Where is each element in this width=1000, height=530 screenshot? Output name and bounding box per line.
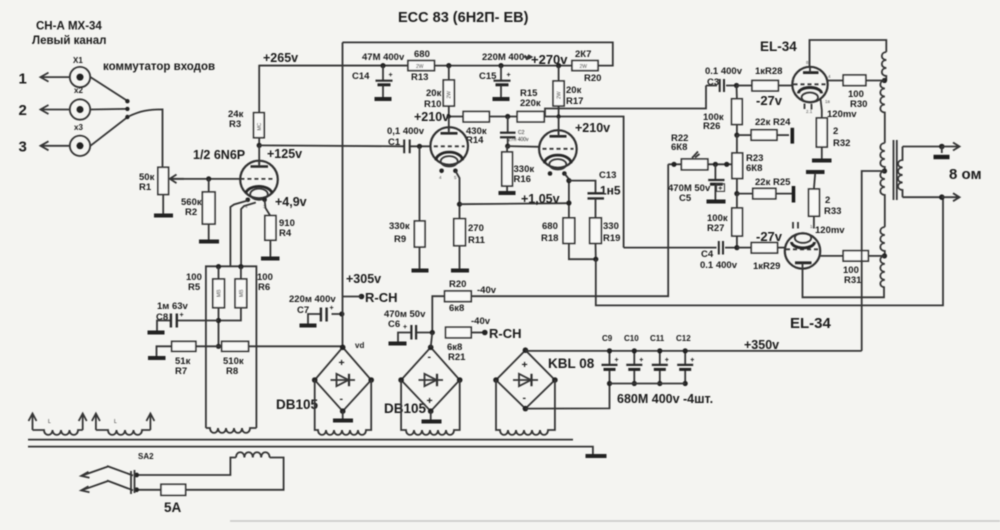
speaker output top [939,143,960,151]
capacitor C7 220м 400v [289,294,342,324]
resistor R15 220к [517,88,544,122]
ground R9 [412,269,429,273]
svg-text:2: 2 [19,102,27,119]
svg-text:МВ: МВ [239,289,245,297]
ground bridge VD [333,411,353,420]
wire grid to tube2 [508,145,540,148]
svg-text:R4: R4 [279,228,292,239]
bridge rectifier DB105 second [384,333,463,417]
wire tube1 cathode to node [455,171,459,219]
resistor R20b 6к8 [432,164,668,332]
svg-text:-: - [428,351,432,363]
resistor R20 2К7 2W [572,49,601,84]
node R11 top [457,202,462,207]
svg-text:C4: C4 [701,249,714,260]
resistor R7 51к [157,341,196,377]
svg-text:C6: C6 [388,319,400,330]
capacitor C3 0.1 400v [705,66,743,92]
ground C7 [300,324,317,328]
wire R17 node to C3 [545,86,706,117]
resistor R25 22к [737,177,794,203]
wire anode top to transformer [810,40,887,67]
resistor R18 680 [541,218,596,259]
node C2 top [505,114,510,119]
node R5 top [216,264,221,269]
svg-text:-: - [523,392,527,404]
svg-text:R13: R13 [411,72,428,83]
svg-text:-27v: -27v [756,93,783,108]
svg-text:0.1 400v: 0.1 400v [705,66,743,77]
svg-text:C12: C12 [676,334,691,343]
resistor R9 330к [389,146,425,268]
wire R5 R6 bottoms [219,308,241,347]
node bias divider lower [734,191,739,196]
resistor R10 20к [424,66,454,117]
svg-text:+: + [718,185,722,192]
svg-text:+: + [615,357,619,364]
capacitor C15 220М 400v [479,52,530,99]
svg-text:R19: R19 [603,233,620,244]
svg-text:220М 400v: 220М 400v [482,52,530,63]
heater supply box [206,266,257,428]
input terminal 1 [19,71,70,88]
svg-text:2: 2 [825,195,830,206]
svg-text:Левый канал: Левый канал [32,35,106,47]
svg-text:6К8: 6К8 [746,163,762,174]
svg-text:2W: 2W [556,91,562,99]
resistor R32 2 [816,99,850,159]
svg-text:120mv: 120mv [815,225,845,236]
svg-text:EL-34: EL-34 [760,39,797,54]
ground bias [806,170,825,174]
wire feedback to speaker [596,197,943,305]
svg-text:R33: R33 [824,206,841,217]
svg-text:+: + [389,72,393,79]
wire KBL 08 plus to +350v rail [525,350,861,352]
svg-text:+350v: +350v [744,338,779,352]
ground R2 [199,240,219,244]
node C6 R21 [430,330,435,335]
node grid R2 [206,176,211,181]
node C3 R26 [734,83,739,88]
svg-text:+4,9v: +4,9v [275,195,307,209]
resistor R8 510к [196,341,249,377]
wire +1,05v cathode link [460,203,569,204]
svg-text:-40v: -40v [477,285,497,296]
svg-text:220к: 220к [520,98,541,109]
svg-text:47М 400v: 47М 400v [362,52,405,63]
svg-text:+: + [522,359,528,371]
node R7 R8 junction [216,344,221,349]
svg-text:1н5: 1н5 [600,184,621,198]
svg-text:R-CH: R-CH [489,326,522,341]
svg-text:-27v: -27v [756,229,783,244]
output transformer secondary [898,147,903,198]
bridge rectifier KBL 08 [493,347,595,411]
wire selector from X3 [90,117,127,146]
wire cathode to R4 [265,200,271,216]
capacitor C4 0.1 400v [624,241,738,271]
node feedback junction [593,257,598,262]
pentode V1 EL-34 [792,60,831,114]
svg-text:R31: R31 [844,275,862,286]
svg-text:R21: R21 [448,352,466,363]
output transformer primary [880,52,887,287]
svg-text:DB105: DB105 [384,401,427,416]
svg-text:R18: R18 [541,233,558,244]
svg-text:C13: C13 [599,170,616,181]
svg-text:+: + [180,312,184,319]
wire anode rail +210v [449,117,624,248]
switch SA2 [81,466,139,494]
node C8 junction [216,318,221,323]
wire tube pin to heater box right [241,203,256,267]
node R6 top [238,264,243,269]
capacitor C2 27н 400v [500,117,529,147]
node R17 top [556,63,561,68]
svg-text:2К7: 2К7 [575,49,591,60]
svg-text:1/2 6N6P: 1/2 6N6P [193,148,245,162]
node cathode C13 [566,178,571,183]
svg-text:0.1 400v: 0.1 400v [700,260,738,271]
svg-text:1м 63v: 1м 63v [157,301,189,312]
svg-text:22к R25: 22к R25 [755,177,791,188]
svg-text:DB105: DB105 [276,397,319,412]
svg-text:R8: R8 [226,366,238,377]
capacitor C1 0.1 400v [259,126,430,153]
input terminal 2 [19,102,70,119]
resistor R30 100 [827,75,884,110]
label R-CH left [343,290,398,305]
svg-text:С2: С2 [518,130,525,136]
svg-text:R5: R5 [188,282,201,293]
svg-text:330к: 330к [389,221,410,232]
svg-text:R-CH: R-CH [365,290,398,305]
capacitor C14 47М 400v [352,52,405,99]
svg-text:L: L [48,419,51,425]
svg-text:vd: vd [355,341,364,350]
resistor R14 430к [463,112,489,147]
ground R32 [812,159,832,163]
speaker output bottom [939,193,960,201]
transformer core upper line [28,439,573,441]
svg-text:R16: R16 [514,174,531,185]
resistor R22 6К8 [668,133,732,170]
resistor R6 100 [235,267,273,308]
svg-text:R26: R26 [703,121,720,132]
svg-text:3: 3 [19,139,27,156]
svg-text:680: 680 [414,49,430,60]
svg-text:20к: 20к [426,88,442,99]
svg-text:2.1: 2.1 [806,109,813,114]
svg-text:R11: R11 [468,235,486,246]
svg-text:2: 2 [833,126,838,137]
heater winding L1 [29,414,87,435]
connector X3 [70,123,90,156]
svg-text:коммутатор входов: коммутатор входов [103,61,215,73]
svg-text:1в: 1в [825,99,831,104]
fuse 5A [137,484,186,515]
node tube1 anode [447,114,451,118]
svg-text:МС: МС [257,122,263,130]
resistor R4 910 [265,216,295,257]
resistor R24 22к [737,117,792,144]
svg-text:C9: C9 [602,334,613,343]
resistor R16 330к [502,146,535,191]
svg-text:ECC 83 (6Н2П- ЕВ): ECC 83 (6Н2П- ЕВ) [398,10,529,26]
svg-text:5A: 5A [164,500,182,515]
capacitor C13 1н5 [569,170,621,218]
wire tube2 cathode node [564,174,569,218]
capacitor C5 470М 50v [668,164,726,204]
node selector contacts [125,99,129,119]
ground R16 [499,191,516,195]
resistor R13 680 2W [408,49,434,83]
ground speaker [934,147,950,158]
input terminal 3 [19,139,70,156]
ground core [586,454,607,458]
svg-text:R6: R6 [258,282,270,293]
heater winding L2 [92,414,154,435]
node R18 top [566,200,571,205]
resistor R28 1к [737,66,794,91]
node +125v [257,143,262,148]
svg-text:6к8: 6к8 [449,303,464,314]
svg-text:+: + [665,357,669,364]
svg-text:+: + [507,72,511,79]
resistor R31 100 [819,251,883,286]
svg-text:+125v: +125v [267,147,302,161]
resistor R17 20к [553,66,583,117]
svg-text:330: 330 [603,221,619,232]
svg-text:+: + [339,357,345,369]
svg-text:C14: C14 [352,71,370,82]
svg-text:+: + [403,324,407,331]
wire +265v rail to R3 [259,66,408,113]
svg-text:R3: R3 [229,119,241,130]
resistor R23 6К8 [732,135,763,194]
wire R1 wiper to grid [171,178,241,180]
svg-text:120mv: 120mv [827,109,857,120]
wire top frame from +305v line to R20 right [343,42,613,65]
svg-text:1в: 1в [810,224,816,229]
resistor R3 24к [228,109,264,145]
winding bridge 2 [401,380,460,435]
triode U1 6N6P [240,145,278,209]
svg-text:EL-34: EL-34 [790,315,832,332]
svg-text:+: + [690,357,694,364]
output transformer core [894,140,897,200]
svg-text:R1: R1 [139,182,152,193]
svg-text:R20: R20 [449,279,466,290]
wire selector from X1 [91,77,128,101]
svg-text:C5: C5 [679,193,692,204]
svg-text:2W: 2W [416,64,424,70]
wire secondary top to output [903,146,942,148]
node R10 top [446,63,451,68]
ground R4 [261,257,280,261]
resistor R27 100к [707,194,742,248]
capacitor C8 1м 63v [156,301,219,331]
svg-text:680: 680 [542,221,558,232]
svg-text:+210v: +210v [575,121,610,135]
triode U2b ECC83 [539,117,577,176]
node C7 on +305v line [339,311,344,316]
svg-text:R20: R20 [584,73,601,84]
pentode V2 EL-34 inverted [785,222,820,269]
resistor R11 270 [454,219,486,269]
node C1 grid R9 [417,144,422,149]
svg-text:х3: х3 [74,123,83,132]
label R-CH right [471,316,522,341]
svg-text:1: 1 [19,71,27,88]
resistor R21 6к8 [446,327,484,363]
triode U2a ECC83 [430,117,468,181]
capacitor C10 [624,334,643,386]
ground bridge 2 [422,411,442,421]
resistor R1 potentiometer 50к [139,167,184,194]
svg-text:KBL 08: KBL 08 [548,356,595,371]
svg-text:20к: 20к [566,85,582,96]
svg-text:R32: R32 [833,138,850,149]
title СН-А МХ-34 [32,21,106,48]
resistor R33 2 [809,173,842,229]
wire primary right to fuse [186,458,284,490]
wire KBL 08 minus to cap bus [525,384,609,409]
ground R1 [154,195,173,216]
svg-text:+: + [639,357,643,364]
transformer core lower line [28,447,593,454]
svg-text:C11: C11 [650,334,665,343]
node tube2 anode [556,114,560,118]
svg-text:+: + [330,305,334,312]
label +270v [524,52,568,67]
svg-text:СН-А МХ-34: СН-А МХ-34 [36,21,102,33]
resistor R26 100к [703,86,742,136]
wire R8 to bridge node [249,345,343,347]
svg-text:220м 400v: 220м 400v [289,294,336,305]
ground R7 [148,356,166,360]
node bias divider upper [734,133,739,138]
wire selector to R1 [129,109,163,167]
svg-text:+270v: +270v [531,52,568,67]
svg-text:2W: 2W [447,91,453,99]
ground R11 [451,269,469,273]
svg-text:2W: 2W [580,64,588,70]
bridge rectifier VD DB105 [276,345,374,415]
svg-text:22к R24: 22к R24 [755,117,791,128]
svg-text:+210v: +210v [414,110,449,124]
svg-text:1кR28: 1кR28 [755,66,782,77]
svg-text:МВ: МВ [217,289,223,297]
wire anode bottom to transformer [803,269,885,298]
svg-text:+: + [427,395,433,407]
svg-text:X1: X1 [73,56,83,65]
svg-text:R2: R2 [185,207,197,218]
svg-text:R27: R27 [707,223,724,234]
wire secondary bottom to output [903,196,942,198]
capacitor C12 [676,334,694,386]
mains primary winding [236,452,270,457]
node tube2 grid [505,144,510,149]
svg-text:680М 400v -4шт.: 680М 400v -4шт. [617,392,713,406]
resistor R5 100 [186,267,224,308]
scan artifact bottom line [230,520,1000,522]
svg-text:C10: C10 [624,334,639,343]
ground C6 [389,342,407,346]
node C4 R29 [734,245,739,250]
svg-text:SA2: SA2 [138,452,154,461]
wire tube pin to heater box left [230,201,247,267]
wire +350v riser to center tap [862,171,885,351]
svg-text:L: L [114,419,117,425]
winding KBL 08 [496,380,555,435]
svg-text:R7: R7 [175,366,187,377]
svg-text:R9: R9 [394,234,406,245]
svg-text:270: 270 [468,223,484,234]
resistor R29 1к [737,243,786,272]
svg-text:0,1 400v: 0,1 400v [387,126,425,137]
svg-text:1кR29: 1кR29 [753,261,780,272]
svg-text:+305v: +305v [346,272,381,286]
svg-text:8 ом: 8 ом [949,166,982,183]
capacitor C11 [650,334,669,386]
resistor R19 330 [590,218,621,259]
heater winding under R5 R6 box [206,428,257,433]
svg-text:R17: R17 [566,96,583,107]
winding bridge VD [315,380,372,435]
connector X1 [70,56,90,87]
capacitor C9 [602,334,619,386]
capacitor C6 470м 50v [384,309,432,342]
svg-text:-40v: -40v [471,316,491,327]
svg-text:+1,05v: +1,05v [521,192,560,206]
connector X2 [70,86,90,120]
resistor R2 560к [181,179,215,240]
wire capacitor bus [610,383,686,385]
wire primary left to switch [137,458,236,476]
wire B+ rail +265v..+270v [259,65,573,67]
wire selector from X2 [90,108,127,111]
svg-text:6К8: 6К8 [671,142,687,153]
svg-text:х2: х2 [74,86,83,95]
svg-text:R10: R10 [424,99,441,110]
ground C8 [148,331,165,335]
svg-text:-: - [340,393,344,405]
svg-text:+265v: +265v [263,51,298,65]
wire +305v riser from bridge VD to top frame [342,42,344,347]
